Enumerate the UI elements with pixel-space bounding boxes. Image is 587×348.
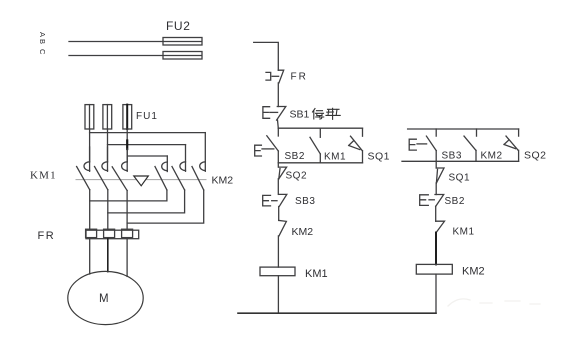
contact KM1 aux (NC) right branch (436, 221, 445, 232)
contactor KM2 pole4 (155, 156, 167, 190)
coil KM1 (260, 267, 295, 276)
fuse FU1 pole1 (85, 105, 94, 129)
wire FR to motor 2 (107, 239, 109, 272)
svg-text:A: A (38, 32, 47, 37)
pushbutton SB3 (NO) right box (409, 129, 436, 161)
contact KM2 aux (NC) left branch (278, 220, 286, 267)
right parallel box top rail (408, 128, 519, 130)
contactor KM2 pole6 (192, 133, 205, 190)
svg-text:KM1: KM1 (305, 268, 328, 280)
contactor KM1 pole2 (95, 147, 108, 190)
svg-text:M: M (99, 293, 109, 305)
svg-text:KM2: KM2 (212, 175, 234, 187)
contactor KM1 pole3 (112, 149, 127, 191)
wire fuse1 element (89, 105, 91, 129)
FR heater element 2 (104, 229, 115, 237)
svg-text:SB2: SB2 (285, 151, 305, 162)
svg-text:B: B (38, 39, 47, 44)
svg-text:KM2: KM2 (462, 266, 485, 278)
left parallel box top rail (278, 127, 362, 129)
fuse FU2 element b (163, 52, 202, 60)
wire SB2 to KM1 contact right (435, 206, 437, 221)
wire pole6 to pole3 connector (127, 190, 204, 223)
wire FR to motor 1 (89, 239, 91, 274)
svg-text:FU2: FU2 (166, 19, 190, 33)
wire phase2 drop to KM1 pole2 (107, 129, 109, 162)
svg-text:KM1: KM1 (30, 170, 57, 182)
pushbutton SB2 (NC style) right branch (420, 195, 444, 207)
wire SB1 to box (277, 120, 280, 128)
svg-text:SB3: SB3 (295, 196, 315, 207)
wire bus C to KM2 pole4 (127, 155, 167, 157)
svg-text:KM2: KM2 (481, 151, 503, 162)
fuse FU1 pole2 (103, 105, 112, 129)
contactor KM1 pole1 (77, 147, 90, 190)
wire bus A to KM2 pole6 (90, 132, 206, 134)
right parallel box bottom rail (402, 160, 519, 162)
wire phase3 bold segment (126, 141, 128, 150)
wire phase line 1 (69, 41, 202, 43)
coil KM2 (416, 264, 452, 274)
svg-text:SB2: SB2 (445, 196, 465, 207)
label 停车 (Chinese stop) (313, 108, 341, 119)
contactor KM2 pole5 (172, 145, 186, 190)
bottom rail (238, 312, 436, 314)
svg-text:SB3: SB3 (442, 151, 462, 162)
wire KM1 to KM2 coil (bold) (435, 233, 437, 265)
wire control feed top (254, 42, 279, 70)
wire pole4 to pole1 connector (90, 190, 167, 201)
wire KM1 coil to bottom rail (277, 276, 279, 314)
pushbutton SB2 (NO) (255, 128, 279, 163)
motor M circle (68, 271, 143, 324)
wire phase3 drop to KM1 pole3 (126, 129, 128, 162)
fuse FU2 element a (163, 38, 202, 46)
wire phase1 drop to KM1 pole1 (89, 129, 91, 162)
fuse FU1 pole3 (123, 105, 132, 129)
limit switch SQ1 (NC) right branch (436, 161, 444, 194)
pushbutton SB3 (NC style) left branch (263, 194, 287, 206)
svg-text:SQ1: SQ1 (368, 151, 391, 163)
limit switch SQ2 (NO) right box (504, 129, 519, 161)
wire SB3 to KM2 contact (278, 207, 280, 221)
svg-text:SQ1: SQ1 (449, 173, 471, 184)
wire pole3 down to FR (126, 191, 128, 230)
wire bus B to KM2 pole5 (108, 144, 186, 146)
wire pole5 to pole2 connector (108, 190, 185, 213)
FR heater element 1 (86, 229, 97, 237)
svg-text:SQ2: SQ2 (524, 150, 547, 162)
svg-text:KM1: KM1 (453, 227, 475, 238)
limit switch SQ2 (NC) on left branch (278, 163, 286, 195)
svg-text:SB1: SB1 (290, 109, 310, 121)
wire fuse2 element (106, 105, 108, 129)
svg-text:KM1: KM1 (324, 152, 346, 163)
wire pole1 down to FR (89, 190, 91, 230)
thermal relay FR frame (86, 230, 139, 239)
svg-text:FR: FR (291, 72, 308, 83)
wire phase line 2 (69, 55, 202, 57)
watermark remnants (448, 299, 540, 306)
wire KM2 coil down to rail (435, 274, 437, 313)
wire FR to SB1 (277, 83, 279, 107)
svg-text:C: C (38, 49, 47, 55)
contact KM2 aux (NO) right box (464, 129, 477, 161)
limit switch SQ1 (NO) (349, 128, 363, 163)
mechanical linkage line (76, 179, 206, 181)
left parallel box bottom rail (278, 162, 362, 164)
svg-text:KM2: KM2 (292, 226, 314, 238)
interlock triangle (134, 176, 149, 186)
contact KM1 aux (NO) (310, 128, 320, 163)
wire pole2 down to FR (107, 190, 109, 230)
FR heater element 3 (122, 229, 133, 237)
wire fuse3 element (bold) (126, 105, 128, 129)
svg-text:FU1: FU1 (136, 111, 158, 122)
pushbutton SB1 (NC) (263, 107, 286, 121)
svg-text:SQ2: SQ2 (286, 171, 308, 182)
contact FR (NC thermal) (266, 70, 284, 83)
wire FR to motor 3 (126, 239, 128, 277)
svg-text:FR: FR (38, 230, 56, 242)
